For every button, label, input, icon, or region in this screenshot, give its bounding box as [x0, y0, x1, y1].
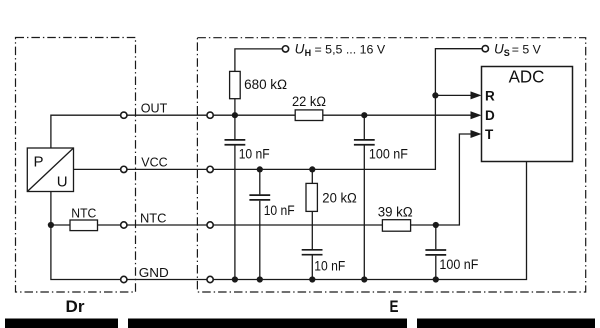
resistor R4 39k (in NTC line) [382, 220, 410, 232]
resistor R3 20k [306, 183, 317, 211]
wire VCC line inside E [214, 49, 483, 170]
svg-text:NTC: NTC [140, 210, 167, 225]
label OUT [141, 101, 168, 116]
wire NTC line (39k to junction) [411, 224, 436, 226]
terminal OUT (Dr side) [121, 112, 127, 118]
svg-text:22 kΩ: 22 kΩ [292, 94, 326, 109]
svg-text:VCC: VCC [141, 155, 167, 170]
pin T (arrow into ADC) [471, 127, 495, 142]
wire GND line inside E (to ADC bottom) [214, 162, 527, 280]
svg-text:GND: GND [139, 265, 169, 280]
terminal OUT (E side) [207, 112, 213, 118]
node VCC/10nF junction [257, 166, 263, 172]
terminal UH supply [282, 46, 288, 52]
svg-text:P: P [34, 153, 44, 170]
svg-text:100 nF: 100 nF [369, 146, 408, 161]
svg-text:680 kΩ: 680 kΩ [244, 77, 287, 92]
wire R line to ADC [435, 94, 471, 96]
capacitor C1 10nF (OUT node to GND) top lead [225, 115, 246, 279]
wire 680k bottom lead [234, 99, 236, 116]
label 10 nF (C4) [314, 258, 345, 273]
wire NTC left lead [51, 224, 70, 226]
label 10 nF (C1) [239, 146, 270, 161]
svg-text:D: D [485, 108, 495, 123]
capacitor C2 100nF (OUT node to GND) [354, 115, 375, 279]
terminal NTC (Dr side) [121, 222, 127, 228]
terminal NTC (E side) [207, 222, 213, 228]
svg-text:E: E [390, 297, 399, 316]
label VCC [141, 155, 167, 170]
node GND/C2 [361, 276, 367, 282]
node GND/C1 [232, 276, 238, 282]
label 100 nF (C5) [439, 257, 478, 272]
label Dr [66, 297, 85, 316]
label 10 nF (C3) [264, 203, 295, 218]
node GND/C3 [257, 276, 263, 282]
sensor U1 (P/U pressure sensor block) [27, 148, 73, 192]
capacitor C5 100nF (NTC node to GND) [425, 225, 446, 280]
op-amp U2 ADC block [482, 66, 573, 161]
node OUT/680k/10nF junction [232, 112, 238, 118]
box E (ECU enclosure, dash-dot border) [197, 38, 585, 292]
label NTC (resistor value) [71, 205, 96, 220]
resistor R1 680k [230, 71, 241, 98]
svg-text:= 5,5 ... 16 V: = 5,5 ... 16 V [315, 42, 386, 56]
svg-text:= 5 V: = 5 V [512, 42, 542, 56]
label NTC (port) [140, 210, 167, 225]
wire NTC right lead [98, 224, 121, 226]
terminal GND (Dr side) [121, 276, 127, 282]
label 680 kOhm [244, 77, 287, 92]
svg-text:39 kΩ: 39 kΩ [378, 205, 413, 220]
svg-text:T: T [485, 127, 494, 142]
svg-text:10 nF: 10 nF [314, 258, 345, 273]
watermark bar bottom [5, 319, 595, 328]
svg-text:OUT: OUT [141, 101, 168, 116]
wire OUT line inside E (left of 22k) [214, 114, 296, 116]
resistor NTC (thermistor) [70, 220, 98, 231]
wire VCC rail (Dr to E) [127, 168, 207, 170]
svg-text:20 kΩ: 20 kΩ [322, 190, 357, 205]
svg-text:S: S [504, 48, 510, 58]
svg-text:R: R [485, 89, 495, 104]
terminal US supply [482, 46, 488, 52]
wire GND rail (Dr to E) [127, 279, 207, 281]
pin R (arrow into ADC) [471, 89, 496, 104]
svg-text:ADC: ADC [509, 66, 545, 86]
label 39 kOhm [378, 205, 413, 220]
node NTC/100nF/T junction [433, 222, 439, 228]
svg-text:U: U [57, 173, 68, 190]
terminal GND (E side) [207, 276, 213, 282]
label US = 5 V [494, 41, 542, 58]
terminal VCC (Dr side) [121, 166, 127, 172]
wire NTC rail (Dr to E) [127, 224, 207, 226]
node GND/C4 [309, 276, 315, 282]
wire 20k top lead [311, 169, 313, 183]
label 22 kOhm [292, 94, 326, 109]
label E [390, 297, 399, 316]
wire OUT rail (Dr to E) [127, 114, 207, 116]
svg-text:100 nF: 100 nF [439, 257, 478, 272]
wire VCC sensor branch [74, 168, 121, 170]
label 100 nF (C2) [369, 146, 408, 161]
svg-text:U: U [295, 41, 305, 56]
resistor R2 22k (in OUT line) [295, 110, 323, 121]
box Dr (sensor enclosure, dash-dot border) [16, 38, 136, 293]
wire sensor ground branch (P/U bottom down to GND) [51, 192, 121, 280]
label GND [139, 265, 169, 280]
wire OUT line inside E (right of 22k to ADC D) [323, 114, 472, 116]
capacitor C4 10nF (below 20k to GND) [302, 211, 323, 279]
label 20 kOhm [322, 190, 357, 205]
node R tap on US vertical [432, 92, 438, 98]
wire OUT sensor branch (P/U top to OUT rail) [51, 115, 121, 148]
terminal VCC (E side) [207, 166, 213, 172]
wire NTC line inside E (left of 39k) [214, 224, 383, 226]
node GND/C5 [433, 276, 439, 282]
svg-text:NTC: NTC [71, 205, 96, 220]
svg-text:H: H [305, 48, 312, 58]
wire 680k top lead to UH terminal [235, 49, 282, 72]
capacitor C3 10nF (VCC to GND) [249, 169, 270, 279]
label UH = 5,5 ... 16 V [295, 41, 386, 58]
svg-text:Dr: Dr [66, 297, 85, 316]
wire T line to ADC [436, 134, 472, 225]
pin D (arrow into ADC) [471, 108, 496, 123]
node sensor/NTC junction [48, 222, 54, 228]
svg-text:U: U [494, 41, 504, 56]
node VCC/20k junction [309, 166, 315, 172]
svg-text:10 nF: 10 nF [264, 203, 295, 218]
svg-text:10 nF: 10 nF [239, 146, 270, 161]
node OUT/100nF junction [361, 112, 367, 118]
